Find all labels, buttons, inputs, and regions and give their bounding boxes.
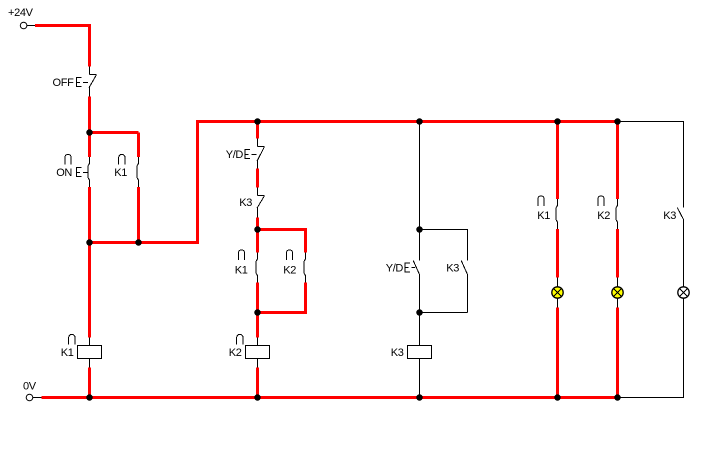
wire 0V rail (red) <box>42 396 618 399</box>
lamp H1 (K1, lit) <box>552 278 563 308</box>
contact K1 lamp (NO, closed) <box>556 199 557 229</box>
wire K1 branch to node A2 <box>137 187 140 243</box>
wire bus to K2 lamp contact <box>616 122 619 200</box>
terminal +24V <box>20 22 35 29</box>
wire K2 contact to lamp <box>616 229 619 278</box>
svg-text:K3: K3 <box>446 263 459 275</box>
svg-text:K1: K1 <box>537 210 550 222</box>
node bus C <box>254 118 261 125</box>
node A2-B junction <box>135 239 142 246</box>
svg-text:K2: K2 <box>283 265 296 277</box>
spring indicator K1 lamp <box>538 196 544 206</box>
coil K2 <box>246 338 270 368</box>
wire node E2 to K3 coil <box>419 313 421 346</box>
wire node C2 to K2 coil <box>256 313 259 338</box>
wire 0V rail (black extension) <box>618 397 685 399</box>
wire node A2 to bus riser <box>90 122 198 243</box>
pushbutton OFF (NC) <box>89 67 96 97</box>
contact Y/D timer (NO, open) <box>413 230 419 313</box>
node bus G <box>554 118 561 125</box>
wire K1 branch down <box>137 133 140 158</box>
contact K3 self-hold (NO, open) <box>461 261 467 313</box>
spring indicator K1 self-hold <box>119 155 125 165</box>
node A2 <box>86 239 93 246</box>
actuator Y/D timer <box>405 263 415 272</box>
wire ON to node A2 <box>88 187 91 244</box>
wire K3 branch to node E2 <box>420 312 468 314</box>
wire bus to K3 lamp contact <box>683 122 685 208</box>
wire K2 branch to node C2 <box>258 283 306 313</box>
spring indicator K2 lamp <box>598 196 604 206</box>
actuator OFF <box>77 78 89 87</box>
svg-text:+24V: +24V <box>8 7 34 19</box>
svg-text:Y/D: Y/D <box>386 263 404 275</box>
wire +24V feed <box>35 26 90 67</box>
actuator ON <box>77 168 89 177</box>
node rail A <box>86 394 93 401</box>
wire lamp H1 to 0V <box>556 308 559 398</box>
node bus E <box>416 118 423 125</box>
wire K3 contact to lamp <box>683 220 685 287</box>
wire lamp H2 to 0V <box>616 308 619 398</box>
wire node C1 to K2 parallel branch <box>258 230 306 253</box>
node rail C <box>254 394 261 401</box>
svg-text:K1: K1 <box>235 265 248 277</box>
contact Y/D (NC, closed) <box>257 139 264 169</box>
wire bus to K1 lamp contact <box>556 122 559 200</box>
wire node E1 to K3 self-hold branch <box>420 230 468 261</box>
spring indicator K2 <box>286 250 292 260</box>
lamp H3 (K3, off) <box>678 287 689 398</box>
wire top bus (red) <box>196 120 618 123</box>
wire A to K1 coil <box>88 243 91 338</box>
lamp H2 (K2, lit) <box>612 278 623 308</box>
contact K2 lamp (NO, closed) <box>616 199 617 229</box>
svg-text:K1: K1 <box>114 167 127 179</box>
wire K1 contact to lamp <box>556 229 559 278</box>
wire node C1 to K1 contact <box>256 230 259 253</box>
contact K3 interlock (NC, closed) <box>257 188 264 218</box>
wire top bus (black extension) <box>618 121 685 123</box>
svg-text:K1: K1 <box>61 347 74 359</box>
node rail G <box>554 394 561 401</box>
wire OFF to ON <box>88 97 91 158</box>
node C2 <box>254 309 261 316</box>
svg-text:OFF: OFF <box>53 77 75 89</box>
spring indicator ON <box>65 155 71 165</box>
svg-text:0V: 0V <box>23 381 37 393</box>
node bus H <box>614 118 621 125</box>
svg-text:K3: K3 <box>663 210 676 222</box>
terminal 0V <box>26 394 41 401</box>
node rail H <box>614 394 621 401</box>
coil K3 <box>408 346 432 399</box>
contact K3 lamp (NO, open) <box>677 208 683 220</box>
wire bus to node E1 <box>419 122 421 230</box>
spring indicator coil K1 <box>69 335 75 345</box>
wire Y/D to K3 interlock <box>256 169 259 188</box>
wire bus to Y/D contact <box>256 122 259 139</box>
svg-text:K3: K3 <box>391 347 404 359</box>
spring indicator coil K2 <box>237 335 243 345</box>
node E2 <box>416 309 423 316</box>
contact K1 (NO, closed) <box>256 253 257 283</box>
node A1 <box>86 129 93 136</box>
svg-text:Y/D: Y/D <box>226 149 244 161</box>
wire K3 interlock to node C1 <box>256 218 259 230</box>
actuator Y/D <box>245 150 257 159</box>
wire K1 contact to node C2 <box>256 283 259 313</box>
node C1 <box>254 226 261 233</box>
coil K1 <box>78 338 102 368</box>
contact K1 self-hold (NO, closed) <box>137 157 138 187</box>
wire K2 coil to 0V <box>256 368 259 398</box>
svg-text:K2: K2 <box>229 347 242 359</box>
svg-text:K2: K2 <box>597 210 610 222</box>
node rail E <box>416 394 423 401</box>
wire K1 coil to 0V <box>88 368 91 398</box>
node E1 <box>416 226 423 233</box>
spring indicator K1 <box>238 250 244 260</box>
pushbutton ON (NO, actuated) <box>88 157 89 187</box>
contact K2 (NO, closed) <box>304 253 305 283</box>
svg-text:K3: K3 <box>239 197 252 209</box>
wire node A1 to K1 branch <box>88 131 139 134</box>
svg-text:ON: ON <box>56 167 72 179</box>
